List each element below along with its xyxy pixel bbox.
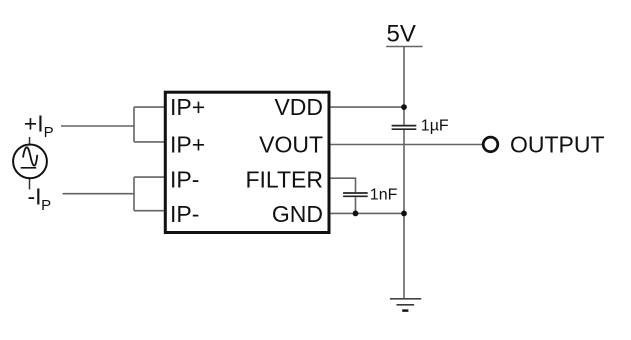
svg-text:VOUT: VOUT: [259, 132, 323, 158]
svg-text:+I: +I: [24, 111, 44, 137]
svg-text:IP+: IP+: [170, 94, 205, 120]
svg-text:IP+: IP+: [170, 132, 205, 158]
svg-text:FILTER: FILTER: [245, 166, 323, 192]
svg-text:1µF: 1µF: [421, 118, 449, 135]
svg-text:VDD: VDD: [274, 94, 323, 120]
svg-text:IP-: IP-: [170, 166, 199, 192]
svg-text:P: P: [44, 124, 54, 141]
svg-text:OUTPUT: OUTPUT: [510, 131, 605, 157]
svg-text:P: P: [41, 197, 51, 214]
svg-text:IP-: IP-: [170, 201, 199, 227]
svg-text:-I: -I: [28, 184, 42, 210]
svg-text:1nF: 1nF: [370, 186, 398, 203]
svg-text:GND: GND: [272, 201, 323, 227]
svg-text:5V: 5V: [387, 21, 416, 48]
